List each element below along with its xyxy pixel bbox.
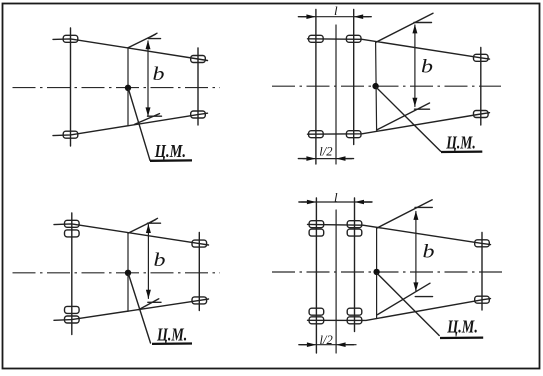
- Q4 CM vertical line: [376, 228, 378, 319]
- Q1 wheel front-top: [63, 35, 78, 42]
- Q1 bottom wheel-to-wheel line: [53, 113, 208, 135]
- Q4 dimension b line: [415, 212, 417, 292]
- Q4 b bottom arrow: [413, 282, 418, 291]
- Q3 b top arrow: [146, 224, 151, 233]
- Q2 CM label underline: [441, 150, 482, 153]
- Q2 wheel axle2-bottom: [346, 131, 361, 138]
- Q3 dual wheel front-bottom outer: [65, 316, 80, 323]
- svg-text:b: b: [153, 64, 165, 85]
- Q4 dual wheel axle1-bottom outer: [309, 317, 324, 324]
- Q4 center-of-mass dot: [373, 269, 379, 275]
- svg-text:Ц.М.: Ц.М.: [154, 141, 186, 161]
- Q3 top oblique hook: [151, 218, 158, 222]
- svg-text:Ц.М.: Ц.М.: [156, 325, 187, 345]
- Q2 dimension l/2 line: [303, 158, 352, 160]
- Q2 b top arrow: [412, 24, 417, 33]
- Q2 dimension b line: [414, 25, 416, 107]
- Q2 CM vertical line: [376, 42, 377, 130]
- Q3 CM label underline: [152, 342, 192, 345]
- Q4 leader line to CM label: [377, 274, 439, 336]
- svg-text:b: b: [154, 250, 166, 271]
- Q1 bottom tick bar: [148, 115, 162, 117]
- Q4 bottom tick bar: [415, 296, 432, 298]
- Q2 rear axle line: [480, 48, 482, 126]
- Q2 wheel axle1-bottom: [309, 131, 324, 138]
- Q1 b bottom arrow: [146, 107, 151, 116]
- svg-text:Ц.М.: Ц.М.: [445, 132, 475, 152]
- Q3 wheel rear-bottom: [192, 297, 207, 304]
- Q2 l right arrow: [354, 14, 364, 19]
- Q4 dimension l line: [302, 201, 372, 203]
- Q2 leader line to CM label: [376, 88, 440, 152]
- Q3 bottom tick bar: [148, 301, 161, 303]
- Q2 mid line between axles: [335, 25, 337, 164]
- Q1 dimension b line: [147, 41, 149, 116]
- Q1 CM label underline: [150, 159, 192, 162]
- Q2 l left arrow: [306, 14, 316, 19]
- Q2 l/2 right arrow: [336, 156, 346, 161]
- Q3 top oblique extension: [128, 220, 156, 234]
- Q3 wheel rear-top: [192, 240, 207, 247]
- svg-text:b: b: [423, 241, 435, 262]
- Q4 l/2 right arrow: [336, 342, 346, 347]
- Q2 axle 1 line: [315, 10, 317, 165]
- Q4 bottom wheel-to-wheel line: [308, 299, 491, 321]
- Q1 rear axle line: [197, 48, 199, 125]
- Q1 top oblique extension: [128, 34, 156, 48]
- Q1 wheel rear-top: [191, 56, 206, 63]
- Q3 top wheel-to-wheel line: [54, 224, 209, 245]
- Q4 b top arrow: [413, 211, 418, 220]
- Q4 top tick bar: [415, 206, 432, 208]
- Q1 leader line to CM label: [129, 90, 150, 161]
- Q2 bottom tick bar: [415, 108, 430, 110]
- Q4 dual wheel axle2-top outer: [347, 221, 362, 228]
- Q2 wheel axle1-top: [309, 35, 324, 42]
- Q3 dual wheel front-top inner: [65, 230, 80, 237]
- Q1 wheel rear-bottom: [191, 111, 206, 118]
- Q4 top wheel-to-wheel line: [308, 224, 491, 244]
- Q4 dual wheel axle2-top inner: [347, 229, 362, 236]
- Q4 dual wheel axle2-bottom outer: [347, 317, 362, 324]
- Q3 dual wheel front-bottom inner: [65, 306, 80, 313]
- Q2 top wheel-to-wheel line: [308, 39, 490, 59]
- Q2 wheel axle2-top: [346, 35, 361, 42]
- Q3 center-of-mass dot: [125, 270, 131, 276]
- Q4 wheel rear-top: [475, 240, 490, 247]
- Q4 centerline (dash-dot axis): [272, 271, 502, 273]
- Q4 l/2 left arrow: [307, 342, 317, 347]
- Q4 l right arrow: [355, 200, 365, 205]
- Q1 front axle line: [70, 28, 72, 146]
- Q2 center-of-mass dot: [372, 83, 378, 89]
- Q4 dual wheel axle1-bottom inner: [309, 308, 324, 315]
- Q4 dual wheel axle1-top inner: [309, 229, 324, 236]
- Q3 b bottom arrow: [146, 290, 151, 299]
- Q1 top wheel-to-wheel line: [53, 39, 208, 61]
- Q2 wheel rear-top: [474, 54, 489, 61]
- Q2 centerline (dash-dot axis): [272, 85, 501, 87]
- Q4 top oblique extension: [377, 200, 433, 228]
- Q2 b bottom arrow: [412, 98, 417, 107]
- Q2 dimension l line: [301, 16, 369, 18]
- Q4 CM label underline: [440, 336, 483, 339]
- Q2 bottom oblique extension: [377, 103, 430, 130]
- Q1 center-of-mass dot: [125, 85, 131, 91]
- Q1 b top arrow: [146, 40, 151, 49]
- svg-text:l/2: l/2: [320, 333, 333, 347]
- svg-text:l: l: [334, 3, 338, 18]
- Q4 mid line between axles: [335, 210, 337, 353]
- Q2 axle 2 line: [353, 10, 355, 145]
- Q4 dual wheel axle1-top outer: [309, 221, 324, 228]
- Q4 rear axle line: [481, 233, 483, 311]
- Q2 l/2 left arrow: [306, 156, 316, 161]
- Q4 l left arrow: [307, 200, 317, 205]
- svg-text:Ц.М.: Ц.М.: [446, 316, 477, 336]
- Q1 top oblique hook: [151, 33, 158, 37]
- Q2 wheel rear-bottom: [474, 111, 489, 118]
- Q2 bottom wheel-to-wheel line: [308, 113, 490, 135]
- Q3 bottom oblique extension: [139, 299, 159, 310]
- Q3 dimension b line: [147, 225, 149, 299]
- Q3 CM vertical line: [127, 233, 129, 311]
- Q4 bottom oblique extension: [378, 283, 431, 314]
- Q3 leader line to CM label: [129, 275, 151, 344]
- svg-text:l: l: [334, 189, 338, 204]
- Q1 centerline (dash-dot axis): [13, 87, 221, 89]
- svg-text:b: b: [421, 56, 433, 77]
- Q3 bottom wheel-to-wheel line: [54, 299, 209, 320]
- Q1 wheel front-bottom: [63, 131, 78, 138]
- Q4 axle 1 line: [315, 198, 317, 353]
- Q4 dimension l/2 line: [301, 344, 356, 346]
- Q4 axle 2 line: [354, 198, 356, 332]
- Q3 top tick bar: [148, 222, 161, 224]
- Q1 bottom oblique extension: [135, 114, 160, 125]
- svg-text:l/2: l/2: [319, 145, 332, 159]
- Q2 top tick bar: [414, 22, 432, 24]
- Q3 centerline (dash-dot axis): [13, 272, 221, 274]
- Q3 front axle line: [71, 213, 73, 335]
- Q3 dual wheel front-top outer: [65, 220, 80, 227]
- Q4 wheel rear-bottom: [475, 296, 490, 303]
- Q2 top oblique extension: [376, 13, 433, 42]
- Q1 top tick bar: [149, 38, 161, 40]
- Q1 CM vertical line: [127, 48, 129, 126]
- Q4 dual wheel axle2-bottom inner: [347, 308, 362, 315]
- Q3 rear axle line: [198, 233, 200, 311]
